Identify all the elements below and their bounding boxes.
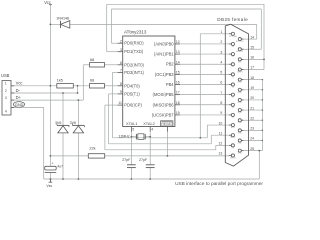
svg-text:D-: D- xyxy=(16,88,21,93)
svg-text:D5: D5 xyxy=(232,97,234,99)
svg-text:PD1(TXD): PD1(TXD) xyxy=(124,49,144,54)
svg-text:INIT: INIT xyxy=(238,61,242,63)
svg-text:27pF: 27pF xyxy=(122,158,131,162)
svg-text:Vss: Vss xyxy=(46,184,52,188)
svg-text:19: 19 xyxy=(176,111,180,115)
svg-text:XTAL1: XTAL1 xyxy=(126,121,138,126)
svg-text:9: 9 xyxy=(220,111,222,115)
svg-text:23: 23 xyxy=(250,127,254,131)
svg-text:14: 14 xyxy=(250,35,254,39)
svg-text:1: 1 xyxy=(220,30,222,34)
svg-text:STROBE: STROBE xyxy=(229,36,238,38)
svg-text:D4: D4 xyxy=(232,87,234,89)
svg-text:13: 13 xyxy=(219,152,223,156)
svg-text:D2: D2 xyxy=(232,66,234,68)
svg-text:2: 2 xyxy=(5,89,7,93)
svg-text:22: 22 xyxy=(250,116,254,120)
svg-text:3: 3 xyxy=(120,48,122,52)
svg-text:GND: GND xyxy=(238,112,243,114)
svg-text:5: 5 xyxy=(132,128,134,132)
svg-text:4: 4 xyxy=(220,60,222,64)
svg-text:21: 21 xyxy=(250,106,254,110)
svg-text:ACK: ACK xyxy=(231,126,236,129)
svg-text:PD4(T0): PD4(T0) xyxy=(124,83,140,88)
svg-text:GND: GND xyxy=(238,132,243,134)
svg-text:18: 18 xyxy=(176,101,180,105)
svg-text:11: 11 xyxy=(118,101,122,105)
svg-text:Vcc: Vcc xyxy=(16,81,23,86)
svg-text:14: 14 xyxy=(176,60,180,64)
svg-text:PB2: PB2 xyxy=(166,62,174,67)
svg-text:(MISO)PB6: (MISO)PB6 xyxy=(153,102,175,107)
svg-text:3V6: 3V6 xyxy=(70,121,76,125)
svg-text:+: + xyxy=(52,162,54,166)
svg-text:1: 1 xyxy=(5,82,7,86)
svg-text:1N4148: 1N4148 xyxy=(56,16,69,20)
svg-text:(AIN0)PB0: (AIN0)PB0 xyxy=(154,41,174,46)
svg-text:3: 3 xyxy=(220,50,222,54)
svg-text:SELIN: SELIN xyxy=(237,72,243,74)
svg-text:24: 24 xyxy=(250,137,254,141)
svg-text:PD5(T1): PD5(T1) xyxy=(124,91,140,96)
svg-text:(UCSK)PB7: (UCSK)PB7 xyxy=(152,112,175,117)
svg-text:5: 5 xyxy=(220,71,222,75)
svg-text:25: 25 xyxy=(250,147,254,151)
svg-text:2: 2 xyxy=(220,40,222,44)
svg-text:17: 17 xyxy=(250,66,254,70)
svg-text:6: 6 xyxy=(220,81,222,85)
svg-text:8: 8 xyxy=(220,101,222,105)
svg-text:12: 12 xyxy=(176,40,180,44)
svg-text:4u7: 4u7 xyxy=(57,164,63,168)
svg-text:68: 68 xyxy=(90,58,94,62)
svg-text:AUTOFD: AUTOFD xyxy=(236,40,244,43)
svg-text:8: 8 xyxy=(120,82,122,86)
svg-text:7: 7 xyxy=(120,69,122,73)
svg-text:BUSY: BUSY xyxy=(230,137,236,139)
svg-text:19: 19 xyxy=(250,86,254,90)
svg-text:17: 17 xyxy=(176,91,180,95)
svg-text:D+: D+ xyxy=(16,95,22,100)
svg-text:DB25 female: DB25 female xyxy=(217,17,248,22)
svg-text:D6: D6 xyxy=(232,107,234,109)
svg-text:3V6: 3V6 xyxy=(55,121,61,125)
svg-text:11: 11 xyxy=(219,131,223,135)
svg-text:GND: GND xyxy=(238,153,243,155)
svg-text:ERROR: ERROR xyxy=(236,51,243,53)
svg-text:Vcc: Vcc xyxy=(44,0,51,5)
svg-text:2: 2 xyxy=(120,39,122,43)
svg-text:GND: GND xyxy=(238,143,243,145)
svg-text:13: 13 xyxy=(176,50,180,54)
svg-text:PD6(ICP): PD6(ICP) xyxy=(124,103,142,108)
svg-text:PD0(RXD): PD0(RXD) xyxy=(124,41,144,46)
svg-text:6: 6 xyxy=(120,61,122,65)
svg-text:GND: GND xyxy=(238,102,243,104)
svg-text:PE: PE xyxy=(232,147,235,149)
svg-text:ATtiny2313: ATtiny2313 xyxy=(124,30,147,35)
svg-text:(OC1)PB3: (OC1)PB3 xyxy=(155,72,175,77)
svg-text:12MHz: 12MHz xyxy=(119,134,130,138)
svg-text:22k: 22k xyxy=(89,147,95,151)
svg-text:27pF: 27pF xyxy=(139,158,148,162)
svg-text:9: 9 xyxy=(120,90,122,94)
svg-text:(MOSI)PB5: (MOSI)PB5 xyxy=(153,92,175,97)
svg-text:7: 7 xyxy=(220,91,222,95)
svg-text:3: 3 xyxy=(5,96,7,100)
svg-text:D3: D3 xyxy=(232,76,234,78)
svg-text:15: 15 xyxy=(176,70,180,74)
svg-text:GND: GND xyxy=(238,92,243,94)
svg-text:4: 4 xyxy=(151,128,153,132)
svg-text:RESET: RESET xyxy=(161,122,174,126)
svg-text:68: 68 xyxy=(90,79,94,83)
svg-text:D0: D0 xyxy=(232,46,234,48)
svg-text:USB interface to parallel port: USB interface to parallel port programme… xyxy=(175,181,263,187)
svg-text:SELIN: SELIN xyxy=(230,157,236,159)
svg-text:12: 12 xyxy=(219,142,223,146)
svg-text:PB4: PB4 xyxy=(166,82,174,87)
svg-text:18: 18 xyxy=(250,76,254,80)
svg-text:XTAL2: XTAL2 xyxy=(143,121,155,126)
svg-text:16: 16 xyxy=(250,56,254,60)
svg-text:15: 15 xyxy=(250,45,254,49)
svg-text:(AIN1)PB1: (AIN1)PB1 xyxy=(154,52,174,57)
svg-text:GND: GND xyxy=(238,122,243,124)
svg-text:16: 16 xyxy=(176,81,180,85)
svg-text:D1: D1 xyxy=(232,56,234,58)
svg-text:GND: GND xyxy=(238,82,243,84)
svg-text:USB: USB xyxy=(1,73,10,78)
svg-text:1k5: 1k5 xyxy=(57,79,63,83)
svg-text:PD3(INT1): PD3(INT1) xyxy=(124,70,144,75)
svg-text:PD2(INT0): PD2(INT0) xyxy=(124,62,144,67)
svg-text:D7: D7 xyxy=(232,117,234,119)
svg-text:20: 20 xyxy=(250,96,254,100)
svg-text:GND: GND xyxy=(15,103,24,107)
svg-text:4: 4 xyxy=(5,109,7,113)
svg-text:10: 10 xyxy=(219,121,223,125)
